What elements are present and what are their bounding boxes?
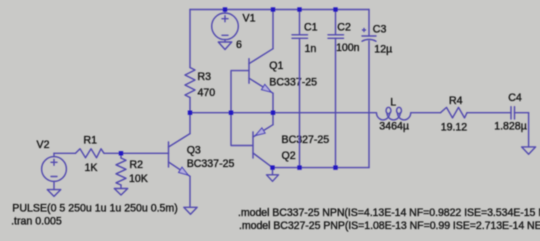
- node dot bus C1: [297, 165, 301, 169]
- svg-text:3464µ: 3464µ: [379, 120, 409, 132]
- wire Q2 emitter riser: [272, 113, 274, 125]
- node dot mid base riser: [229, 111, 233, 115]
- capacitor C3 polarized: [368, 10, 370, 37]
- node dot bus C2: [333, 165, 337, 169]
- ground below V1: [218, 42, 231, 50]
- capacitor C4: [510, 107, 512, 119]
- svg-text:.model BC337-25 NPN(IS=4.13E-1: .model BC337-25 NPN(IS=4.13E-14 NF=0.982…: [238, 207, 540, 219]
- wire Q3 collector riser: [189, 113, 191, 134]
- capacitor C1: [299, 10, 301, 35]
- svg-text:C4: C4: [508, 92, 522, 104]
- wire V2 to R1: [54, 152, 76, 154]
- voltage source V2: [42, 157, 67, 182]
- svg-text:19.12: 19.12: [441, 121, 468, 133]
- svg-text:12µ: 12µ: [374, 44, 392, 56]
- svg-text:6: 6: [236, 39, 242, 51]
- svg-text:1n: 1n: [305, 43, 317, 55]
- svg-text:.tran 0.005: .tran 0.005: [11, 215, 62, 227]
- node dot top Q1 riser: [271, 7, 275, 11]
- ground right of C4: [522, 147, 536, 154]
- wire R4 to C4: [467, 112, 511, 114]
- svg-text:PULSE(0 5 250u 1u 1u 250u 0.5m: PULSE(0 5 250u 1u 1u 250u 0.5m): [12, 203, 178, 215]
- wire Q1 base: [231, 71, 249, 113]
- svg-text:R2: R2: [130, 159, 144, 171]
- wire Q3 emitter drop: [189, 176, 191, 207]
- svg-text:1.828µ: 1.828µ: [494, 120, 527, 132]
- svg-text:Q1: Q1: [269, 60, 283, 72]
- wire top rail: [190, 9, 369, 11]
- wire mid bus: [190, 112, 369, 114]
- svg-text:1K: 1K: [85, 162, 98, 174]
- resistor R4: [441, 107, 468, 118]
- svg-text:Q3: Q3: [187, 144, 201, 156]
- svg-text:100n: 100n: [336, 42, 360, 54]
- capacitor C2: [335, 10, 337, 35]
- resistor R1: [76, 149, 105, 158]
- svg-text:R3: R3: [198, 71, 212, 83]
- svg-text:BC337-25: BC337-25: [187, 158, 235, 170]
- voltage source V1: [224, 10, 226, 14]
- wire Q1 collector riser: [272, 10, 274, 49]
- ground below V2: [47, 190, 60, 197]
- svg-text:.model BC327-25 PNP(IS=1.08E-1: .model BC327-25 PNP(IS=1.08E-13 NF=0.99 …: [239, 220, 540, 232]
- ground below Q2 collector: [272, 168, 274, 175]
- wire bottom bus: [273, 167, 370, 169]
- node dot mid R3: [188, 111, 192, 115]
- svg-text:10K: 10K: [129, 173, 148, 185]
- wire R3 bottom: [189, 98, 191, 113]
- node dot top C1: [297, 7, 301, 11]
- inductor L: [369, 113, 390, 120]
- svg-text:V2: V2: [37, 139, 50, 151]
- transistor Q2: [252, 132, 254, 158]
- svg-text:V1: V1: [243, 12, 256, 24]
- ground below Q3: [184, 207, 197, 214]
- svg-text:BC337-25: BC337-25: [269, 77, 317, 89]
- wire Q2 base: [231, 113, 253, 146]
- node dot mid emitters: [271, 111, 275, 115]
- wire left vertical to R3: [189, 10, 191, 68]
- wire node to Q3 base: [121, 152, 169, 154]
- node dot bus Q2: [270, 165, 274, 169]
- svg-text:Q2: Q2: [282, 150, 296, 162]
- resistor R2: [120, 153, 122, 158]
- svg-text:R4: R4: [449, 95, 463, 107]
- node dot R1 R2: [119, 151, 123, 155]
- svg-text:C3: C3: [373, 23, 387, 35]
- transistor Q1: [248, 59, 250, 83]
- svg-text:BC327-25: BC327-25: [282, 134, 330, 146]
- node dot top V1: [223, 7, 227, 11]
- svg-text:L: L: [390, 97, 396, 109]
- svg-text:C2: C2: [337, 21, 351, 33]
- svg-text:470: 470: [198, 87, 216, 99]
- svg-text:R1: R1: [84, 135, 98, 147]
- svg-text:C1: C1: [304, 21, 318, 33]
- wire Q1 emitter drop: [272, 93, 274, 113]
- wire R1 to node: [104, 152, 121, 154]
- transistor Q3: [168, 142, 170, 167]
- node dot top C2: [333, 7, 337, 11]
- resistor R3: [185, 68, 195, 98]
- ground below R2: [114, 189, 127, 196]
